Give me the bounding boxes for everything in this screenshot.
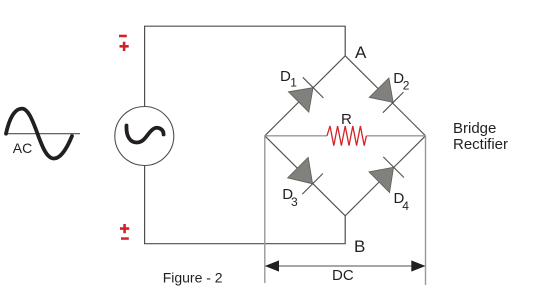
polarity plus (bottom) — [120, 224, 129, 233]
label D3 — [282, 186, 298, 209]
polarity minus (top) — [119, 35, 127, 38]
svg-text:R: R — [341, 111, 352, 128]
diode D4 — [369, 157, 404, 193]
svg-text:3: 3 — [291, 195, 298, 209]
diode D3 — [288, 157, 323, 194]
polarity plus (top) — [120, 42, 129, 51]
wire bridge edge L to B — [265, 136, 345, 216]
wire DC terminal left — [264, 136, 266, 283]
svg-text:Figure - 2: Figure - 2 — [163, 269, 223, 285]
label D2 — [393, 70, 410, 92]
ac waveform sine — [6, 109, 72, 159]
ac waveform axis — [6, 133, 81, 135]
wire DC terminal right — [425, 136, 427, 285]
svg-text:4: 4 — [402, 199, 409, 213]
wire bridge edge L to A — [265, 56, 345, 136]
label Bridge Rectifier — [453, 120, 508, 153]
AC source sine symbol — [126, 126, 163, 143]
wire bottom horizontal — [145, 166, 346, 244]
label D4 — [394, 190, 410, 213]
wire middle left (L to resistor) — [265, 135, 327, 137]
DC dimension arrow — [265, 260, 426, 271]
svg-text:B: B — [354, 237, 365, 256]
svg-text:Bridge: Bridge — [453, 120, 496, 137]
AC source circle — [115, 107, 174, 166]
wire bridge edge A to R — [345, 56, 425, 136]
svg-text:Rectifier: Rectifier — [453, 136, 508, 153]
polarity minus (bottom) — [121, 237, 129, 240]
svg-text:1: 1 — [290, 76, 297, 90]
wire middle right (resistor to R) — [366, 135, 425, 137]
diode D1 — [288, 77, 323, 112]
svg-text:2: 2 — [403, 78, 410, 92]
wire top horizontal — [145, 26, 346, 106]
svg-text:AC: AC — [13, 140, 32, 156]
diode D2 — [369, 78, 403, 113]
svg-text:A: A — [355, 43, 367, 62]
label D1 — [280, 68, 297, 90]
wire bridge edge B to R — [345, 136, 425, 216]
resistor R zigzag — [327, 126, 366, 146]
svg-text:DC: DC — [332, 267, 354, 284]
